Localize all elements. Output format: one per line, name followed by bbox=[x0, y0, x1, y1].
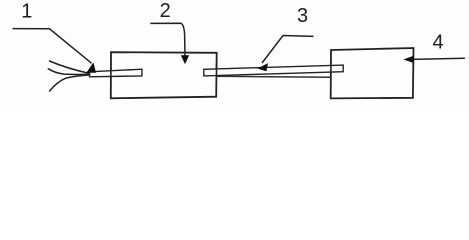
svg-text:4: 4 bbox=[432, 32, 443, 54]
svg-text:3: 3 bbox=[297, 5, 308, 27]
svg-text:1: 1 bbox=[21, 1, 32, 23]
svg-text:2: 2 bbox=[160, 0, 171, 22]
